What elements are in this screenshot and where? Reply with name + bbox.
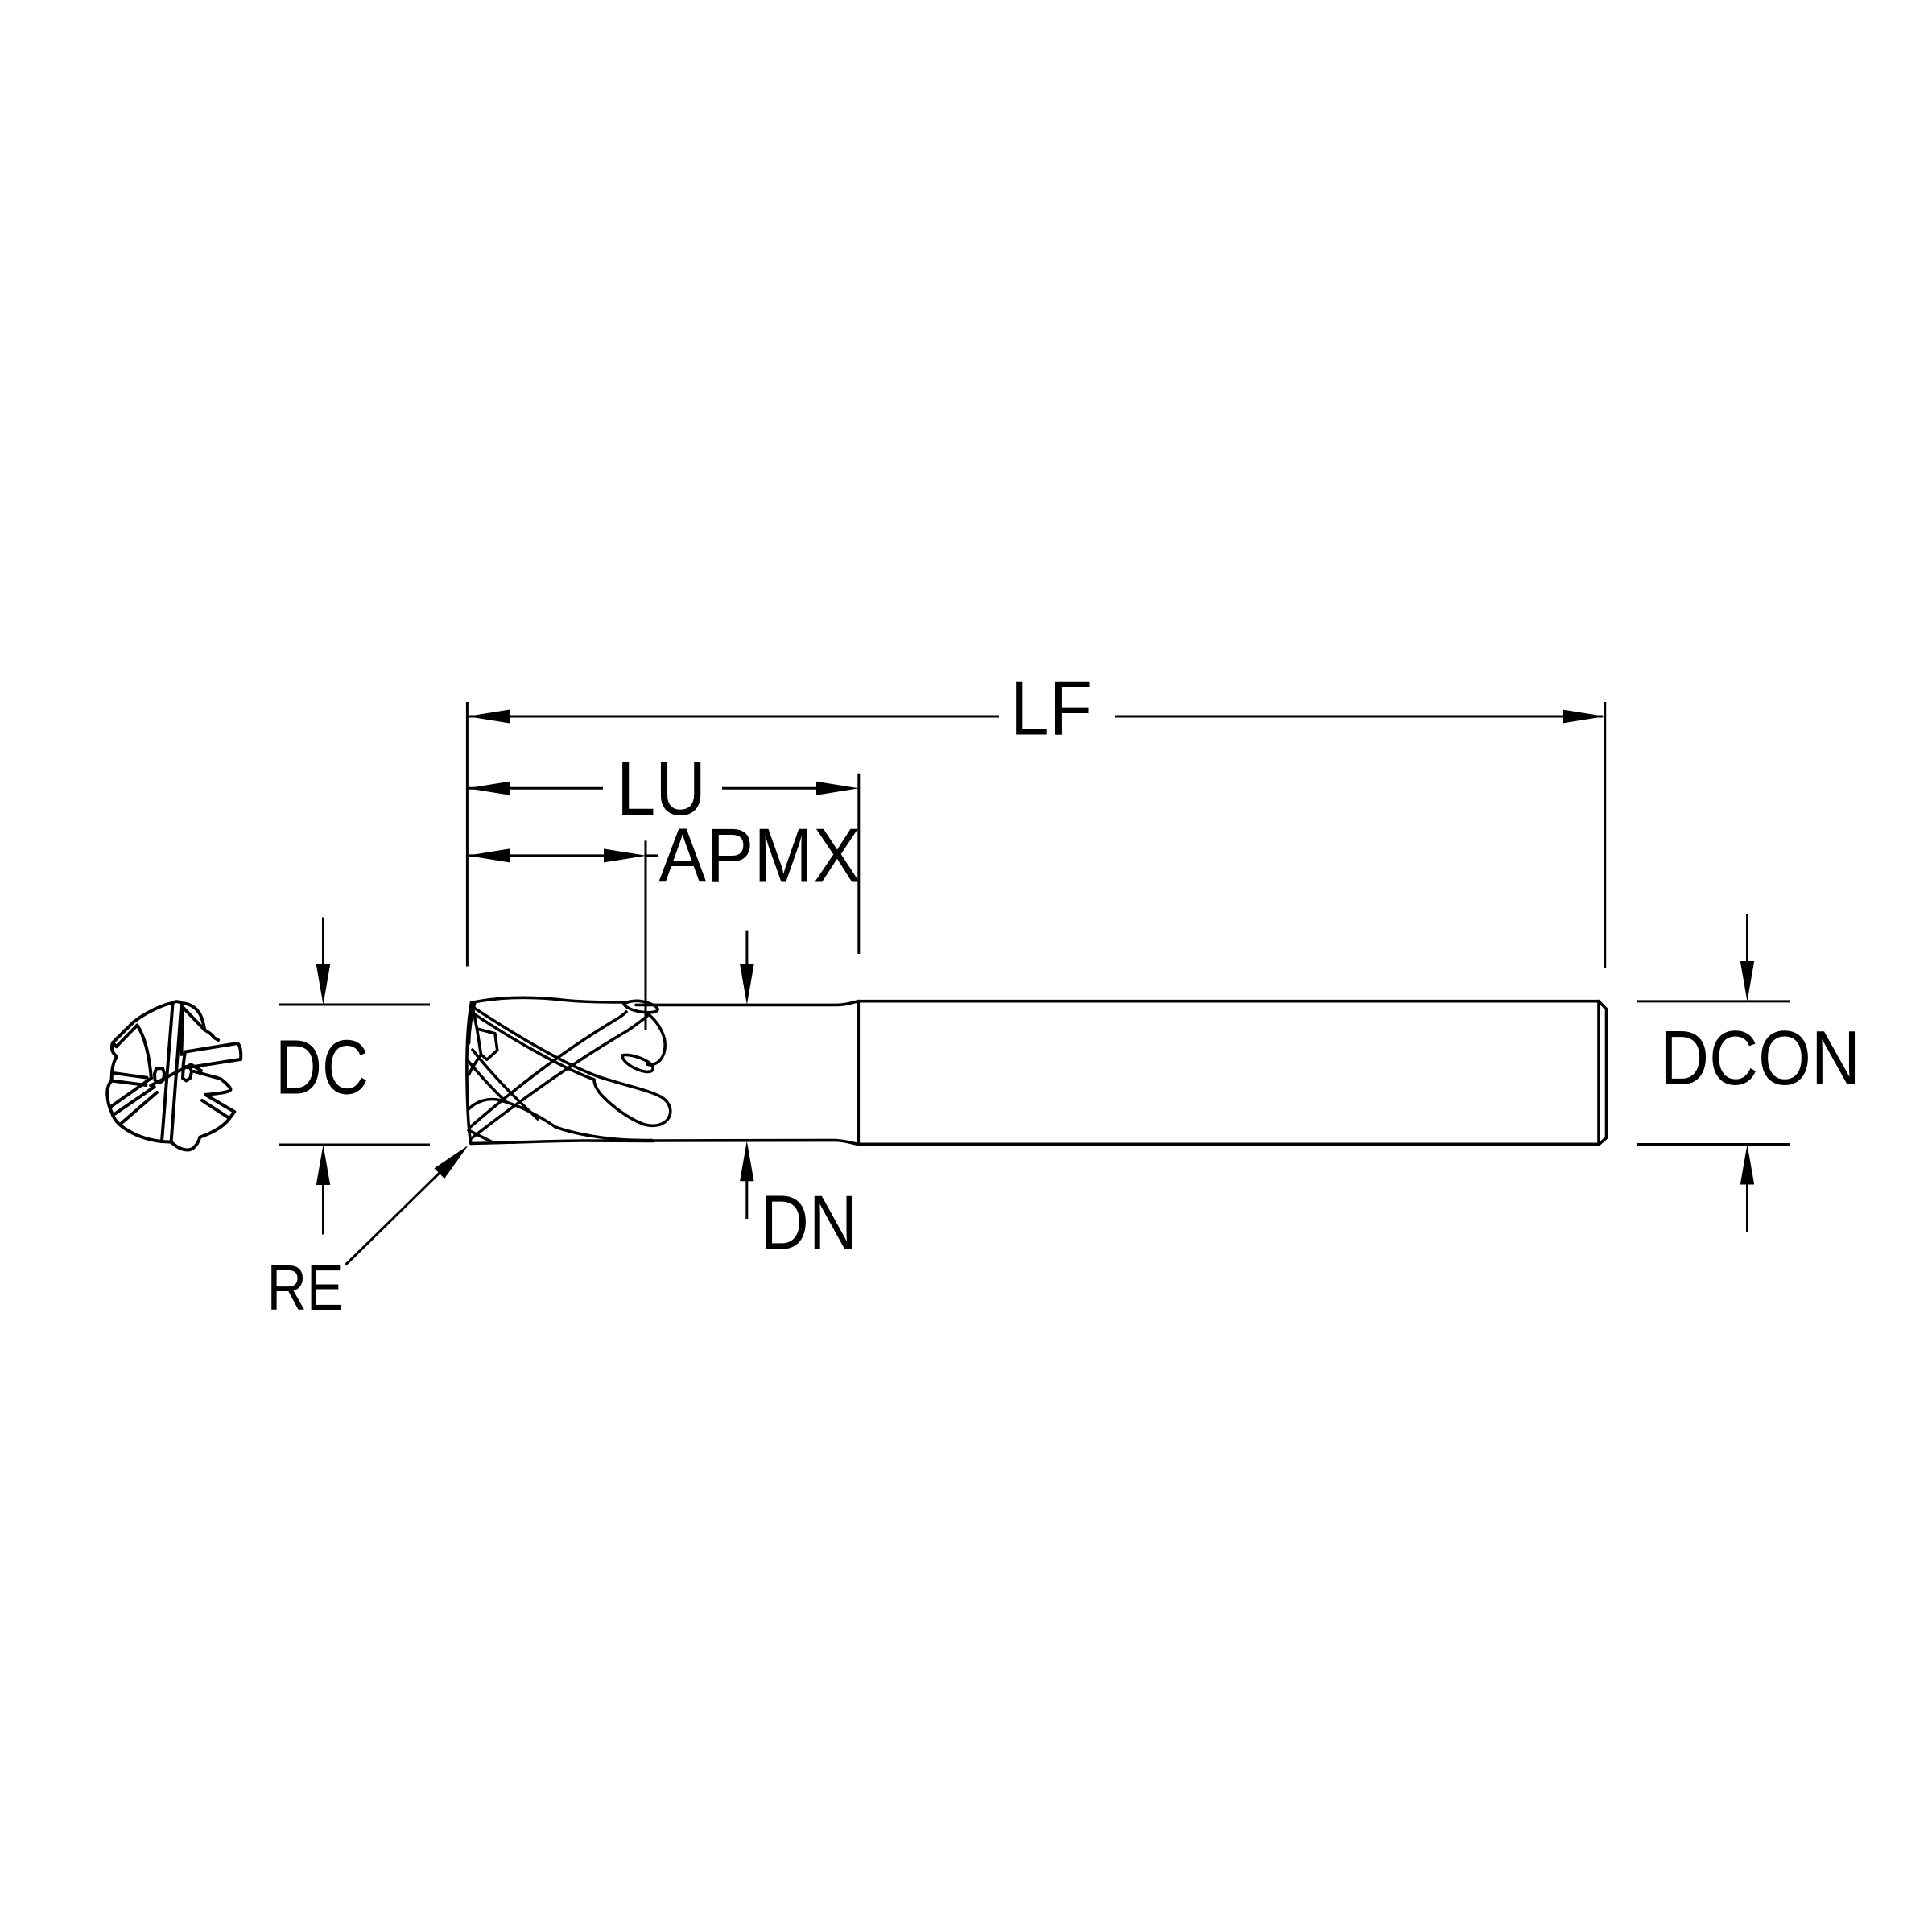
lower-right blade upper edge xyxy=(205,1095,234,1112)
flute runout eyelet xyxy=(624,1001,658,1012)
neck top line xyxy=(636,1001,858,1005)
right lower petal fan line xyxy=(191,1064,201,1071)
flute ascending arc U2 xyxy=(471,1015,649,1139)
flute runout second lens xyxy=(622,1055,653,1071)
DCON top line xyxy=(1637,1000,1790,1002)
LU right arrowhead xyxy=(816,782,859,795)
LU dim line xyxy=(469,787,603,790)
lower-right blade tip cap xyxy=(229,1112,234,1118)
LF dim line xyxy=(469,716,999,718)
left blade top edge xyxy=(112,1073,147,1078)
neck bottom line xyxy=(654,1141,858,1145)
svg-text:DN: DN xyxy=(760,1180,857,1266)
DCON down arrowhead xyxy=(1740,961,1754,1001)
gash line from corner xyxy=(473,1007,477,1029)
right lower petal outline xyxy=(194,1071,230,1095)
right blade tip cap xyxy=(237,1043,241,1059)
LU ext right xyxy=(857,774,860,954)
left lower scallop xyxy=(107,1081,111,1108)
right blade upper edge xyxy=(185,1043,237,1052)
DN down arrow stem xyxy=(745,931,748,966)
lower-left blade lower edge xyxy=(113,1087,155,1115)
lower-right blade lower edge xyxy=(202,1100,229,1118)
flute dome lens xyxy=(469,1100,652,1141)
shank end face xyxy=(1597,1001,1600,1145)
lower-left petal fan line xyxy=(121,1092,157,1124)
upper-left blade outer edge xyxy=(113,1022,134,1043)
right blade left cap xyxy=(184,1052,185,1066)
DN down arrowhead xyxy=(740,964,753,1005)
small center-left blob xyxy=(155,1068,164,1083)
corner gash line xyxy=(469,1130,493,1142)
LU left arrowhead xyxy=(468,782,510,795)
svg-text:DCON: DCON xyxy=(1660,1015,1860,1101)
DC down arrowhead xyxy=(316,964,330,1005)
shank bottom line xyxy=(858,1143,1599,1146)
center bar bottom cap xyxy=(162,1140,171,1144)
RE leader line xyxy=(345,1171,441,1265)
cutter left edge xyxy=(467,1003,472,1144)
upper-right fan line xyxy=(183,1007,204,1030)
gash line to left edge xyxy=(469,1055,481,1075)
flute edge K2 companion and runout leaf xyxy=(473,1008,671,1126)
APMX right arrowhead xyxy=(604,848,646,862)
svg-text:APMX: APMX xyxy=(658,812,861,898)
right inner vertical line xyxy=(181,1008,183,1055)
lower-left blade tip cap xyxy=(109,1108,113,1116)
shank top line xyxy=(858,1000,1599,1003)
center bar left edge xyxy=(162,1003,173,1141)
flute edge K3 companion xyxy=(467,1059,507,1103)
DC top line xyxy=(279,1004,430,1006)
DC up arrowhead xyxy=(316,1145,330,1185)
left upper scallop xyxy=(112,1042,117,1073)
lower-right petal outline xyxy=(171,1118,230,1150)
gash notch pentagon xyxy=(477,1029,497,1059)
RE leader arrowhead xyxy=(435,1146,469,1179)
DCON up arrowhead xyxy=(1740,1145,1754,1185)
center bar top cap xyxy=(173,1001,182,1003)
bottom envelope xyxy=(471,1141,654,1144)
DC up arrow stem xyxy=(322,1183,324,1235)
neck-shank transition line xyxy=(857,1001,861,1145)
ext line right LF xyxy=(1604,702,1606,968)
DCON up arrow stem xyxy=(1746,1183,1748,1232)
left blade cap xyxy=(110,1073,114,1081)
svg-text:RE: RE xyxy=(267,1252,344,1323)
flute ascending arc U1 xyxy=(469,1012,626,1128)
upper-right petal outline xyxy=(181,1003,204,1030)
ext line left (LF/LU/APMX) xyxy=(466,702,469,967)
LF left arrowhead xyxy=(468,710,510,724)
flute edge K3 xyxy=(473,1050,538,1119)
DC bottom line xyxy=(279,1144,430,1146)
DCON down arrow stem xyxy=(1746,914,1748,963)
upper-left blade inner run xyxy=(138,1026,151,1079)
LF right arrowhead xyxy=(1563,710,1605,724)
lower-left blade upper edge xyxy=(109,1078,151,1108)
svg-text:LF: LF xyxy=(1010,666,1092,752)
DCON bottom line xyxy=(1637,1143,1790,1146)
APMX dim line xyxy=(469,854,608,857)
left blade bottom edge xyxy=(112,1081,147,1086)
cutter left edge inner xyxy=(469,1004,475,1043)
DN up arrow stem xyxy=(745,1179,748,1219)
center bar right edge xyxy=(171,1003,182,1141)
upper-left petal outline xyxy=(134,1003,173,1022)
right blade lower edge xyxy=(188,1059,241,1067)
flute edge K2 xyxy=(473,1013,595,1080)
center diagonal line xyxy=(151,1064,191,1085)
APMX dim line tick past ext xyxy=(646,854,658,857)
DC down arrow stem xyxy=(322,918,324,967)
upper-left blade inner edge xyxy=(117,1026,138,1047)
upper-right scallop to blade xyxy=(204,1030,218,1041)
DN up arrowhead xyxy=(740,1141,753,1181)
upper-left blade tip cap xyxy=(113,1042,116,1046)
small center-right blob xyxy=(183,1067,192,1081)
cutter top envelope xyxy=(472,997,625,1002)
flute runout ear arc xyxy=(647,1013,665,1065)
bottom-left scallop xyxy=(113,1115,162,1141)
shank end chamfer xyxy=(1599,1001,1607,1145)
APMX left arrowhead xyxy=(468,848,510,862)
APMX ext line xyxy=(645,840,647,1030)
svg-text:DC: DC xyxy=(275,1024,369,1110)
